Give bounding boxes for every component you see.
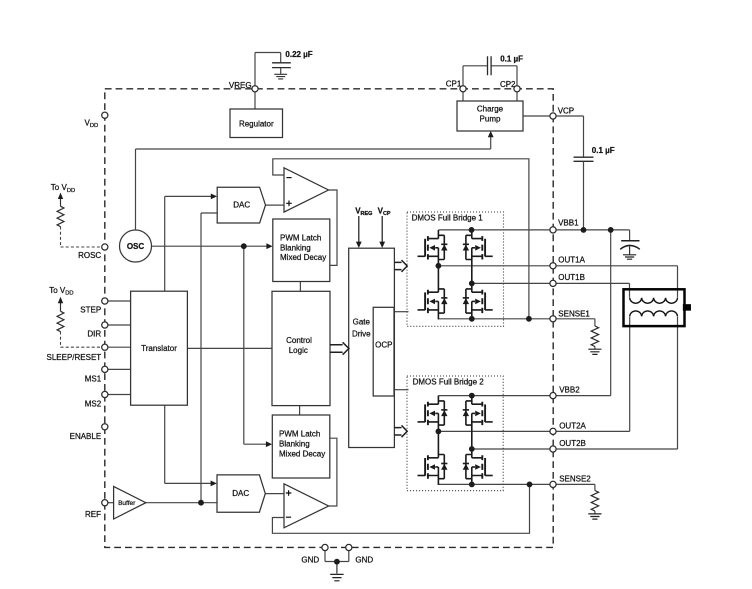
svg-text:PWM Latch: PWM Latch (280, 233, 321, 242)
svg-text:Charge: Charge (477, 104, 504, 113)
svg-text:CP2: CP2 (500, 80, 516, 89)
svg-text:DMOS Full Bridge 1: DMOS Full Bridge 1 (412, 213, 484, 222)
svg-text:PWM Latch: PWM Latch (279, 430, 320, 439)
svg-text:DMOS Full Bridge 2: DMOS Full Bridge 2 (413, 377, 485, 386)
svg-text:SLEEP/RESET: SLEEP/RESET (47, 353, 102, 362)
svg-text:Buffer: Buffer (118, 500, 136, 507)
svg-text:MS1: MS1 (85, 374, 102, 383)
svg-text:VREG: VREG (229, 81, 252, 90)
svg-text:SENSE2: SENSE2 (559, 475, 591, 484)
svg-text:DIR: DIR (87, 329, 101, 338)
svg-text:Gate: Gate (353, 318, 371, 327)
svg-text:Logic: Logic (289, 346, 308, 355)
svg-text:VBB2: VBB2 (559, 386, 580, 395)
svg-text:VBB1: VBB1 (558, 219, 579, 228)
svg-text:STEP: STEP (80, 306, 101, 315)
svg-text:VCP: VCP (558, 106, 574, 115)
svg-text:GND: GND (355, 555, 373, 564)
svg-text:Control: Control (286, 336, 312, 345)
svg-text:Blanking: Blanking (280, 243, 311, 252)
svg-text:0.22 µF: 0.22 µF (285, 50, 312, 59)
svg-text:OSC: OSC (127, 242, 145, 251)
svg-text:ROSC: ROSC (78, 251, 101, 260)
svg-text:REF: REF (85, 510, 101, 519)
svg-text:Translator: Translator (141, 344, 177, 353)
svg-text:CP1: CP1 (446, 80, 462, 89)
svg-text:OUT1A: OUT1A (558, 256, 585, 265)
svg-text:OUT2B: OUT2B (559, 439, 586, 448)
svg-text:Regulator: Regulator (239, 119, 274, 128)
svg-text:Mixed Decay: Mixed Decay (279, 449, 325, 458)
svg-text:SENSE1: SENSE1 (558, 310, 590, 319)
svg-text:OUT2A: OUT2A (559, 421, 586, 430)
svg-text:Blanking: Blanking (279, 440, 310, 449)
svg-text:DAC: DAC (233, 200, 250, 209)
svg-text:0.1 µF: 0.1 µF (500, 54, 523, 63)
svg-text:DAC: DAC (232, 489, 249, 498)
svg-text:OUT1B: OUT1B (558, 273, 585, 282)
svg-text:Pump: Pump (480, 114, 501, 123)
svg-text:Mixed Decay: Mixed Decay (280, 253, 326, 262)
svg-text:MS2: MS2 (85, 400, 102, 409)
svg-text:0.1 µF: 0.1 µF (592, 146, 615, 155)
svg-text:Drive: Drive (352, 330, 371, 339)
svg-text:OCP: OCP (375, 340, 392, 349)
svg-text:GND: GND (301, 555, 319, 564)
svg-text:ENABLE: ENABLE (70, 432, 102, 441)
